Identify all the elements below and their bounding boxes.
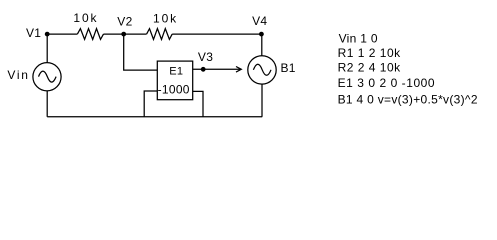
wire bottom rail (ground return) [47,116,262,118]
svg-text:10k: 10k [73,11,98,25]
svg-text:V3: V3 [198,50,213,64]
wire B1 top lead [261,34,263,56]
wire B1 bottom lead [261,84,263,117]
svg-text:V1: V1 [26,26,41,40]
svg-text:B1: B1 [281,61,296,75]
wire E1 right bottom pin to ground rail [193,91,203,116]
node V4 junction dot [259,32,264,37]
svg-text:R2 2 4 10k: R2 2 4 10k [338,61,402,75]
svg-text:V4: V4 [252,14,267,28]
arrowhead [236,67,241,73]
svg-text:-1000: -1000 [158,82,190,96]
wire V2 down to E1 input [124,34,158,70]
svg-text:10k: 10k [153,11,178,25]
wire E1 output to V3 with arrow toward B1 [193,68,241,70]
svg-text:Vin: Vin [7,68,29,82]
VCVS E1 box [157,61,192,100]
source B1 [248,56,276,84]
node V3 junction dot [201,67,206,72]
resistor R2 [147,29,173,40]
source Vin [33,63,61,91]
svg-text:R1 1 2 10k: R1 1 2 10k [338,46,402,60]
wire R2 to V4 [172,33,262,35]
wire top rail V1 to R1 [47,33,77,35]
wire Vin bottom lead [46,91,48,117]
svg-text:Vin 1 0: Vin 1 0 [339,32,378,46]
wire E1 left bottom pin to ground rail [144,91,157,117]
svg-text:E1: E1 [169,65,183,77]
svg-text:B1 4 0 v=v(3)+0.5*v(3)^2: B1 4 0 v=v(3)+0.5*v(3)^2 [338,93,478,107]
wire R1 to R2 through node V2 [104,33,147,35]
wire Vin top lead [46,34,48,63]
svg-text:V2: V2 [117,15,132,29]
svg-text:E1 3 0 2 0 -1000: E1 3 0 2 0 -1000 [338,76,436,90]
node V2 junction dot [121,32,126,37]
node V1 junction dot [45,32,50,37]
resistor R1 [77,29,103,40]
